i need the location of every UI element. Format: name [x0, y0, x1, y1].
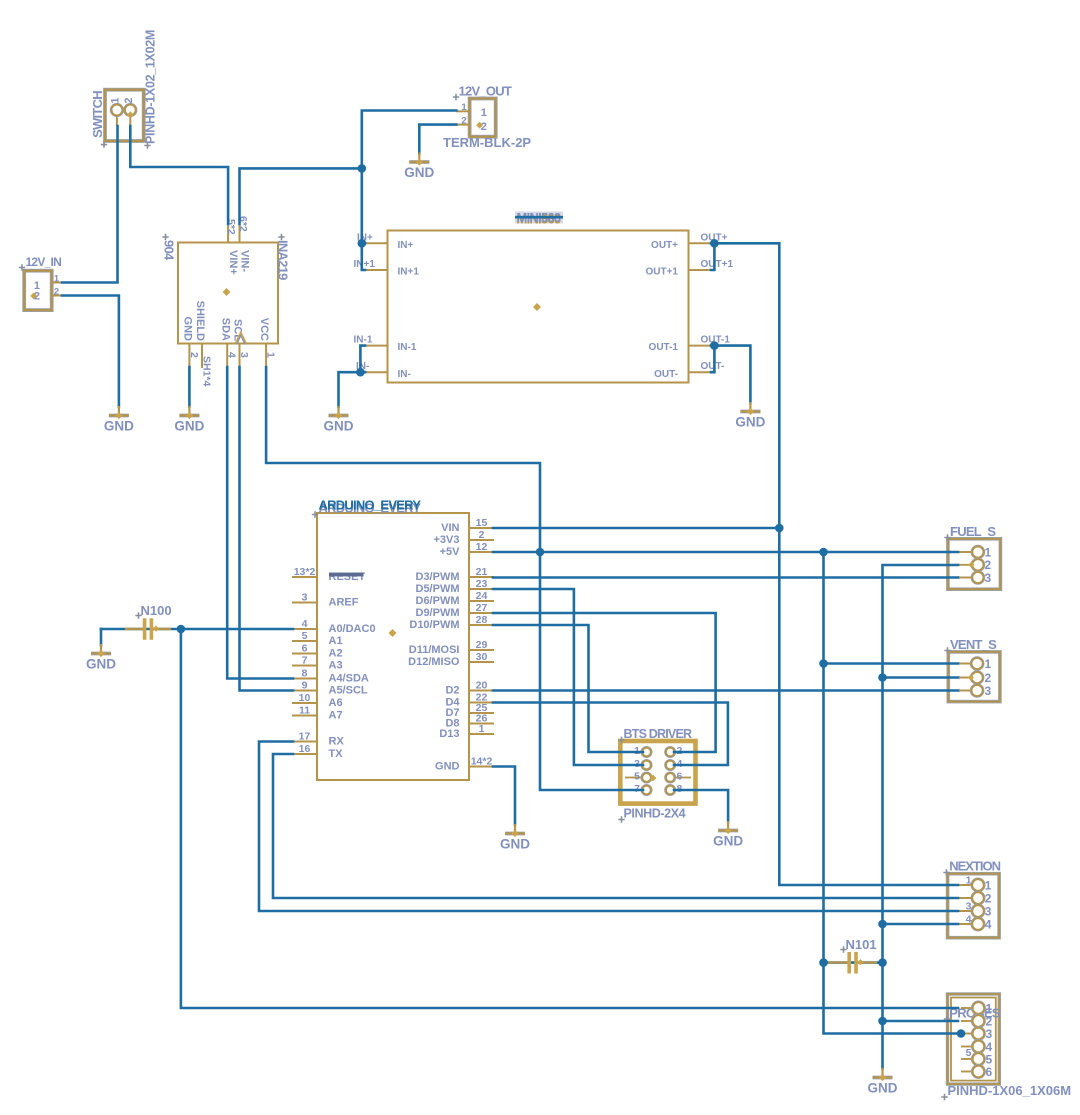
svg-text:1: 1 — [265, 352, 277, 358]
wire INA219 VIN- to node 12V — [240, 168, 362, 224]
wire MINI560 IN- node to pin — [360, 371, 365, 374]
svg-text:12: 12 — [476, 541, 488, 553]
node NEXTION pin4 junction — [878, 920, 887, 929]
svg-text:6: 6 — [302, 643, 308, 655]
ground at bottom — [868, 1068, 898, 1096]
node 12V junction — [358, 164, 367, 173]
node N101 left junction — [819, 958, 828, 967]
svg-text:13*2: 13*2 — [294, 566, 316, 578]
svg-text:4: 4 — [226, 352, 238, 358]
svg-text:N101: N101 — [846, 937, 877, 952]
connector PROBES PINHD-1X06_1X06M — [944, 994, 1001, 1084]
svg-text:D3/PWM: D3/PWM — [416, 571, 460, 583]
svg-text:3: 3 — [238, 352, 250, 358]
wire N101 across — [824, 961, 883, 964]
svg-text:1: 1 — [986, 1002, 993, 1016]
svg-text:16: 16 — [299, 743, 311, 755]
svg-text:15: 15 — [476, 517, 488, 529]
svg-text:4: 4 — [985, 918, 992, 932]
svg-text:D10/PWM: D10/PWM — [409, 619, 459, 631]
svg-text:A6: A6 — [329, 697, 343, 709]
svg-text:6: 6 — [677, 771, 683, 783]
node IN- junction — [356, 368, 365, 377]
svg-text:NEXTION: NEXTION — [949, 858, 1000, 873]
wire INA219 VCC to +5V node — [266, 367, 540, 552]
connector VENT_S — [948, 652, 1000, 702]
wire +5V branch down to BTS pin7 — [540, 552, 643, 790]
ground under INA219 — [174, 406, 204, 434]
wire GND bus branch NEXTION pin4 — [883, 923, 959, 926]
svg-text:D13: D13 — [439, 728, 459, 740]
svg-text:TERM-BLK-2P: TERM-BLK-2P — [443, 135, 531, 150]
wire N100 GND lead down — [100, 629, 103, 645]
svg-text:2: 2 — [481, 121, 487, 133]
svg-text:7: 7 — [302, 655, 308, 667]
wire MINI560 OUT-1 to OUT- — [711, 346, 714, 373]
svg-text:OUT+1: OUT+1 — [645, 267, 678, 278]
svg-text:21: 21 — [476, 566, 488, 578]
wire MINI560 OUT+ node to vertical bus — [714, 243, 958, 885]
connector SWITCH PINHD-1X02_1X02M — [105, 90, 144, 141]
svg-text:A7: A7 — [329, 710, 343, 722]
svg-text:2: 2 — [123, 97, 135, 103]
svg-text:1: 1 — [110, 97, 122, 103]
node IN+ junction — [358, 239, 367, 248]
svg-text:+5V: +5V — [440, 546, 461, 558]
wire MINI560 IN+ to IN+1 — [362, 243, 365, 270]
svg-text:OUT+1: OUT+1 — [701, 259, 734, 270]
capacitor N100 — [125, 618, 171, 640]
svg-text:A5/SCL: A5/SCL — [329, 685, 368, 697]
svg-text:GND: GND — [713, 834, 743, 849]
ground under ARDUINO — [500, 824, 530, 852]
connector 12V_OUT TERM-BLK-2P — [456, 99, 495, 137]
svg-text:OUT+: OUT+ — [651, 240, 678, 251]
svg-text:6: 6 — [986, 1065, 993, 1079]
svg-text:VIN-: VIN- — [238, 250, 250, 272]
svg-text:SH1*4: SH1*4 — [201, 356, 213, 387]
module U1 ARDUINO_EVERY — [292, 513, 494, 780]
wire ARDUINO GND to GND — [493, 767, 515, 825]
node OUT-1 junction — [710, 341, 719, 350]
svg-text:2: 2 — [985, 671, 992, 685]
svg-text:GND: GND — [404, 165, 434, 180]
wire +5V rail ARDUINO +5V to FUEL_S pin1 — [493, 551, 958, 554]
wire ARDUINO VIN to OUT+ bus — [493, 527, 779, 530]
svg-text:D12/MISO: D12/MISO — [408, 656, 460, 668]
svg-text:8: 8 — [302, 668, 308, 680]
svg-text:ARDUINO_EVERY: ARDUINO_EVERY — [319, 498, 422, 513]
svg-text:IN-1: IN-1 — [398, 342, 417, 353]
svg-text:4: 4 — [302, 618, 308, 630]
wire MINI560 IN- to GND — [339, 372, 361, 407]
node +5V junction right — [819, 548, 828, 557]
svg-text:PINHD-2X4: PINHD-2X4 — [624, 807, 686, 821]
svg-text:A1: A1 — [329, 635, 343, 647]
svg-text:14*2: 14*2 — [471, 756, 493, 768]
node +5V junction at INA VCC — [536, 548, 545, 557]
svg-text:D11/MOSI: D11/MOSI — [409, 644, 460, 656]
svg-text:VIN+: VIN+ — [227, 250, 239, 275]
svg-text:D9/PWM: D9/PWM — [416, 607, 460, 619]
wire ARDUINO D9/PWM to BTS pin2 — [493, 613, 716, 752]
svg-text:GND: GND — [324, 419, 354, 434]
svg-text:28: 28 — [476, 614, 488, 626]
svg-text:SHIELD: SHIELD — [194, 301, 206, 341]
svg-text:VCC: VCC — [258, 318, 270, 341]
ground under 12V_OUT — [404, 153, 434, 181]
svg-text:A0/DAC0: A0/DAC0 — [329, 623, 376, 635]
svg-text:12V_IN: 12V_IN — [26, 255, 62, 269]
svg-text:IN-: IN- — [398, 369, 411, 380]
svg-text:2: 2 — [985, 892, 992, 906]
svg-text:1: 1 — [479, 723, 485, 735]
svg-text:3: 3 — [985, 571, 992, 585]
IC U904 INA219 — [178, 216, 278, 387]
svg-text:GND: GND — [735, 415, 765, 430]
svg-text:OUT-: OUT- — [654, 369, 678, 380]
svg-text:A3: A3 — [329, 660, 343, 672]
svg-text:GND: GND — [435, 761, 460, 773]
node A0 junction at N100 — [177, 625, 186, 634]
svg-text:1: 1 — [461, 102, 467, 113]
svg-text:24: 24 — [476, 590, 488, 602]
node PROBES pin3 junction — [957, 1029, 966, 1038]
svg-text:BTS DRIVER: BTS DRIVER — [624, 727, 692, 741]
svg-text:D5/PWM: D5/PWM — [416, 583, 460, 595]
svg-text:INA219: INA219 — [276, 240, 291, 280]
wire 12V_IN pin1 to SWITCH pin1 — [62, 126, 118, 283]
wire ARDUINO D3/PWM to FUEL_S pin3 — [493, 576, 958, 579]
svg-text:IN+: IN+ — [398, 240, 414, 251]
wire ARDUINO D10/PWM to BTS pin1 — [493, 625, 643, 752]
svg-text:SWITCH: SWITCH — [90, 91, 105, 138]
svg-text:GND: GND — [104, 419, 134, 434]
svg-text:AREF: AREF — [329, 597, 359, 609]
connector FUEL_S — [948, 539, 1001, 589]
svg-text:10: 10 — [299, 692, 311, 704]
ground under MINI560 OUT- — [735, 402, 765, 430]
ground at N100 — [86, 644, 116, 672]
svg-text:N100: N100 — [141, 603, 172, 618]
svg-text:PINHD-1X02_1X02M: PINHD-1X02_1X02M — [144, 30, 158, 144]
wire SWITCH pin2 to INA219 VIN+ — [130, 126, 228, 224]
svg-text:17: 17 — [299, 731, 311, 743]
wire GND bus branch PROBES pin2 — [883, 1020, 959, 1023]
svg-text:IN-1: IN-1 — [354, 335, 373, 346]
svg-text:GND: GND — [174, 419, 204, 434]
svg-text:D6/PWM: D6/PWM — [416, 595, 460, 607]
svg-text:FUEL_S: FUEL_S — [950, 524, 996, 539]
svg-text:3: 3 — [985, 905, 992, 919]
svg-text:5: 5 — [966, 1047, 972, 1059]
ground under MINI560 IN- — [324, 406, 354, 434]
wire MINI560 OUT+ to OUT+1 — [711, 243, 714, 270]
wire ARDUINO RX to NEXTION pin3 — [259, 742, 958, 912]
svg-text:29: 29 — [476, 639, 488, 651]
connector BTS_DRIVER PINHD-2X4 — [620, 741, 695, 804]
svg-text:2: 2 — [461, 115, 466, 126]
svg-text:OUT-1: OUT-1 — [649, 342, 679, 353]
svg-text:SDA: SDA — [219, 318, 231, 341]
svg-text:9: 9 — [302, 680, 308, 692]
wire N100 net GND to ARDUINO A0 — [101, 628, 293, 631]
wire INA219 SDA to ARDUINO A4/SDA — [227, 367, 293, 679]
node VENT_S pin2 junction — [878, 673, 887, 682]
node VENT_S pin1 junction — [819, 659, 828, 668]
wire node 12V to MINI560 IN+ — [362, 168, 365, 243]
svg-text:20: 20 — [476, 680, 488, 692]
svg-text:1: 1 — [481, 107, 487, 119]
wire MINI560 IN-1 to IN- — [360, 346, 365, 373]
svg-text:IN+1: IN+1 — [354, 259, 376, 270]
node VIN junction — [775, 524, 784, 533]
node PROBES pin2 junction — [878, 1017, 887, 1026]
svg-text:23: 23 — [476, 578, 488, 590]
svg-text:5: 5 — [302, 630, 308, 642]
wire INA219 SCL to ARDUINO A5/SCL — [240, 367, 294, 691]
svg-text:2: 2 — [188, 352, 200, 358]
wire GND bus branch VENT_S pin2 — [883, 676, 959, 679]
svg-text:11: 11 — [299, 705, 310, 717]
capacitor N101 — [828, 952, 877, 974]
svg-text:D2: D2 — [445, 685, 459, 697]
svg-text:VIN: VIN — [441, 522, 459, 534]
svg-text:IN+1: IN+1 — [398, 267, 420, 278]
svg-text:904: 904 — [162, 240, 177, 261]
svg-text:A4/SDA: A4/SDA — [329, 673, 369, 685]
wire GND bus FUEL_S pin2 down to bottom GND — [883, 565, 959, 1069]
svg-text:2: 2 — [479, 529, 485, 541]
svg-text:PINHD-1X06_1X06M: PINHD-1X06_1X06M — [948, 1083, 1072, 1098]
svg-text:VENT_S: VENT_S — [950, 637, 997, 652]
module U2 MINI560 buck converter — [364, 231, 713, 383]
svg-text:30: 30 — [476, 651, 488, 663]
node N101 right junction — [878, 958, 887, 967]
svg-text:1: 1 — [54, 273, 60, 284]
svg-text:3: 3 — [985, 684, 992, 698]
wire ARDUINO D2 to VENT_S pin3 — [493, 689, 958, 692]
svg-text:OUT-: OUT- — [701, 361, 725, 372]
node OUT+ junction — [710, 239, 719, 248]
wire 12V_OUT pin2 to GND — [419, 125, 456, 154]
connector 12V_IN TERM-BLK-2P — [24, 271, 62, 310]
wire MINI560 OUT-1 to GND — [714, 346, 750, 403]
wire +5V branch right vertical to VENT_S pin1 — [824, 552, 959, 664]
svg-text:5: 5 — [634, 771, 640, 783]
wire 12V_IN pin2 to GND — [62, 296, 119, 407]
connector NEXTION — [948, 874, 1000, 938]
svg-text:12V_OUT: 12V_OUT — [459, 84, 512, 99]
wire +5V vertical to N101 and PROBES pin3 — [824, 664, 960, 1034]
wire A0 net down to PROBES pin1 — [181, 629, 958, 1008]
label MINI560 — [515, 212, 563, 224]
svg-text:27: 27 — [476, 602, 488, 614]
wire ARDUINO TX to NEXTION pin2 — [273, 754, 958, 898]
svg-text:+3V3: +3V3 — [434, 534, 460, 546]
svg-text:RX: RX — [329, 736, 345, 748]
svg-text:1: 1 — [985, 657, 992, 671]
wire BTS pin8 to GND — [674, 790, 728, 822]
svg-text:A2: A2 — [329, 648, 343, 660]
svg-text:3: 3 — [986, 1027, 993, 1041]
svg-text:GND: GND — [868, 1081, 898, 1096]
ground under 12V_IN — [104, 406, 134, 434]
svg-text:GND: GND — [500, 837, 530, 852]
wire INA219 GND pin2 down to GND — [188, 367, 191, 407]
svg-text:GND: GND — [86, 657, 116, 672]
ground under BTS_DRIVER — [713, 821, 743, 849]
svg-text:TX: TX — [329, 748, 344, 760]
wire node 12V to 12V_OUT pin1 — [362, 111, 457, 169]
svg-text:2: 2 — [54, 286, 59, 297]
wire ARDUINO D5/PWM to BTS pin3 — [493, 589, 643, 765]
svg-text:3: 3 — [302, 592, 308, 604]
svg-text:1: 1 — [985, 879, 992, 893]
svg-text:GND: GND — [182, 317, 194, 342]
wire ARDUINO D4 to BTS pin4 — [493, 703, 728, 766]
